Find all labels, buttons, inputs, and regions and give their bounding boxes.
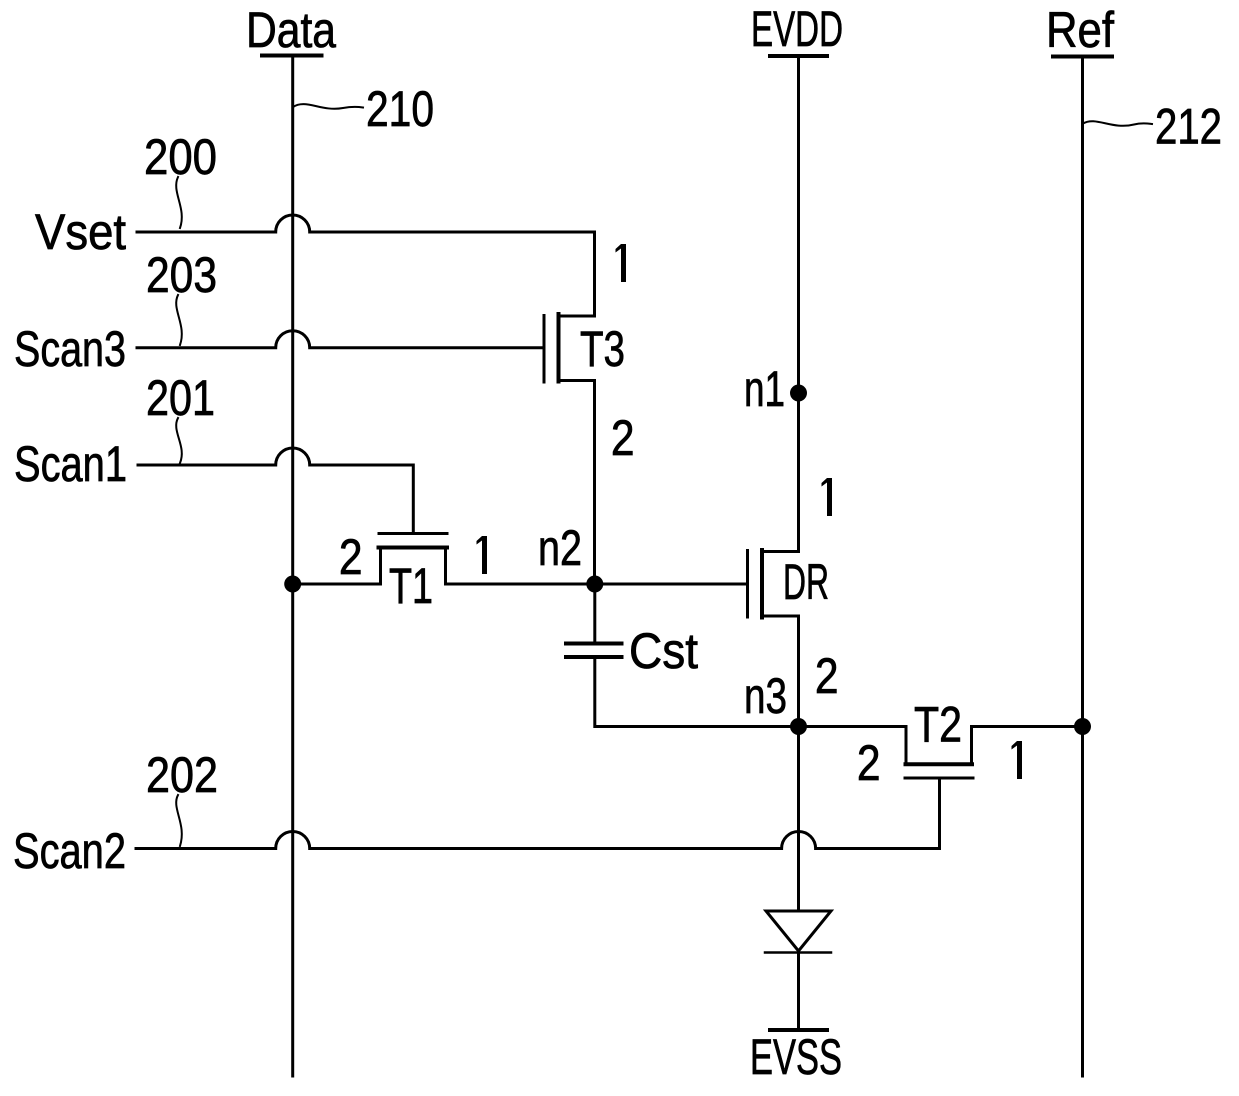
wire T2 drain to Ref line [972, 725, 1083, 728]
node n2 junction dot [586, 576, 603, 593]
wire diode cathode to EVSS [797, 951, 800, 1030]
svg-text:T3: T3 [580, 321, 625, 377]
wire Cst bottom to n3 [595, 657, 799, 727]
label 203 [146, 247, 217, 303]
node Vset label [35, 204, 126, 260]
wire T3 pin 2 down to node n2 [593, 381, 596, 585]
svg-text:Ref: Ref [1046, 2, 1114, 58]
node Data label [246, 2, 336, 58]
wire Data vertical line 210 [291, 56, 294, 1077]
junction dot on Data line [284, 576, 301, 593]
wire Scan1 line with hop over Data, to T1 gate [138, 448, 413, 534]
pin 1 of DR [822, 478, 833, 516]
wire Vset line with hop over Data, to T3 pin 1 [137, 215, 595, 316]
node n3 junction dot [790, 718, 807, 735]
node Scan2 label [13, 823, 126, 879]
svg-text:2: 2 [815, 648, 839, 704]
wire EVDD vertical to DR drain [797, 56, 800, 552]
svg-text:2: 2 [611, 410, 635, 466]
svg-text:T2: T2 [914, 697, 962, 753]
svg-text:203: 203 [146, 247, 217, 303]
wire n3 to T2 source [799, 725, 907, 728]
label n1 [744, 361, 785, 417]
svg-text:Scan3: Scan3 [14, 321, 126, 377]
Ref terminal bar [1053, 55, 1112, 59]
pin 2 of DR [815, 648, 839, 704]
pin 2 of T3 [611, 410, 635, 466]
svg-text:Data: Data [246, 2, 336, 58]
pin 2 of T1 [339, 529, 363, 585]
svg-text:T1: T1 [389, 558, 433, 614]
node Scan3 label [14, 321, 126, 377]
svg-text:EVDD: EVDD [751, 1, 843, 57]
label T3 [580, 321, 625, 377]
svg-text:Vset: Vset [35, 204, 126, 260]
capacitor Cst top wire [593, 584, 596, 644]
node Ref label [1046, 2, 1114, 58]
label n2 [538, 520, 582, 576]
transistor T1 [379, 534, 448, 585]
diode OLED [765, 911, 831, 953]
label 200 [144, 129, 217, 185]
EVDD terminal bar [770, 54, 827, 58]
EVSS terminal bar [770, 1028, 827, 1032]
label 210 [366, 81, 434, 137]
label 202 [146, 747, 218, 803]
pin 1 of T2 [1012, 741, 1023, 779]
svg-text:n3: n3 [744, 668, 787, 724]
transistor DR [748, 550, 799, 618]
svg-text:Cst: Cst [629, 623, 698, 679]
label DR [783, 554, 829, 610]
svg-text:EVSS: EVSS [750, 1029, 842, 1085]
transistor T3 [544, 314, 595, 382]
wire Scan3 line with hop over Data, to T3 gate [137, 331, 544, 348]
Data terminal bar [262, 54, 322, 58]
wire Data to T1 source [293, 583, 381, 586]
svg-text:210: 210 [366, 81, 434, 137]
transistor T2 [905, 727, 973, 779]
svg-text:202: 202 [146, 747, 218, 803]
svg-text:n1: n1 [744, 361, 785, 417]
pin 1 of T1 [477, 536, 488, 574]
leader squiggle to 210 [293, 104, 363, 109]
svg-text:DR: DR [783, 554, 829, 610]
svg-text:201: 201 [146, 370, 215, 426]
pin 2 of T2 [857, 735, 881, 791]
junction dot on Ref line [1074, 718, 1091, 735]
wire Ref vertical line 212 [1081, 57, 1084, 1077]
pin 1 of T3 [616, 244, 627, 282]
wire DR pin 2 down through n3 to diode [797, 616, 800, 911]
svg-text:212: 212 [1155, 99, 1222, 155]
label T2 [914, 697, 962, 753]
svg-text:2: 2 [857, 735, 881, 791]
wire T1 drain through n2 to DR gate [446, 583, 748, 586]
svg-text:Scan2: Scan2 [13, 823, 126, 879]
node EVSS label [750, 1029, 842, 1085]
capacitor Cst plates [566, 642, 622, 646]
node EVDD label [751, 1, 843, 57]
wire Scan2 line with hops over Data and EVDD, to T2 gate [136, 778, 940, 849]
label T1 [389, 558, 433, 614]
leader squiggle 203 [176, 295, 182, 345]
label Cst [629, 623, 698, 679]
svg-text:2: 2 [339, 529, 363, 585]
leader squiggle 201 [176, 418, 182, 463]
node Scan1 label [14, 436, 127, 492]
leader squiggle 202 [176, 795, 182, 846]
leader squiggle 200 [176, 177, 182, 228]
node n1 junction dot [790, 385, 807, 402]
label 201 [146, 370, 215, 426]
label n3 [744, 668, 787, 724]
svg-text:Scan1: Scan1 [14, 436, 127, 492]
svg-text:200: 200 [144, 129, 217, 185]
svg-text:n2: n2 [538, 520, 582, 576]
leader squiggle to 212 [1083, 121, 1152, 126]
label 212 [1155, 99, 1222, 155]
